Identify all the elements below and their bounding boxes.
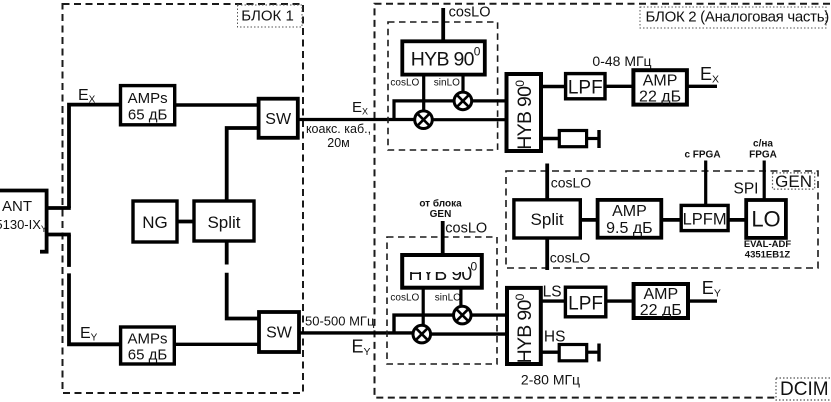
svg-text:cosLO: cosLO [390, 293, 419, 304]
wire LPF2 to AMP2 [606, 299, 634, 302]
svg-text:С5130-IXY: С5130-IXY [0, 217, 47, 234]
svg-text:LPFM: LPFM [683, 211, 727, 229]
amplifier AMPs1 65 dB [121, 86, 175, 125]
wire cosLO stub above Split2 [545, 164, 549, 200]
wire Split bottom segment 1 [225, 241, 229, 265]
wire M2 to HYB1v [472, 99, 507, 102]
svg-text:AMPs: AMPs [127, 331, 167, 348]
svg-text:20м: 20м [327, 136, 350, 150]
svg-text:Split: Split [207, 213, 240, 232]
svg-text:SW: SW [265, 111, 292, 128]
svg-text:SPI: SPI [734, 181, 759, 198]
block boundary BLOK2 (dashed) [375, 4, 831, 398]
svg-text:FPGA: FPGA [749, 150, 777, 161]
wire Split top to SW1 [227, 128, 259, 201]
wire FPGA to LPFM [704, 161, 707, 206]
block boundary GEN (dashed) [506, 171, 818, 268]
wire M1 to HYB1v [432, 118, 506, 121]
svg-text:9.5 дБ: 9.5 дБ [606, 220, 653, 237]
svg-text:4351EB1Z: 4351EB1Z [745, 250, 791, 261]
svg-text:cosLO: cosLO [449, 4, 491, 20]
block boundary mixer group Y (dashed) [387, 237, 497, 364]
svg-text:NG: NG [142, 213, 168, 232]
filter LPFM [681, 205, 728, 230]
hybrid HYB 90 (X LO) [402, 41, 485, 74]
block boundary BLOK1 (dashed) [63, 4, 304, 393]
wire junction branch up to mixer M2 [394, 101, 454, 120]
wire HYB1v to terminator (X) [541, 137, 559, 140]
wire HYB2v HS to terminator [541, 351, 559, 354]
svg-text:LO: LO [751, 207, 780, 232]
label box BLOK 1 [238, 5, 303, 27]
svg-text:SW: SW [266, 325, 293, 342]
wire M3 to HYB2v [431, 332, 507, 335]
label box GEN [773, 172, 815, 191]
label box DCIM [776, 378, 831, 400]
svg-text:БЛОК 2 (Аналоговая часть): БЛОК 2 (Аналоговая часть) [646, 9, 830, 26]
svg-text:cosLO: cosLO [445, 221, 487, 237]
amplifier AMP1 22 dB [633, 70, 687, 105]
svg-text:HYB 90: HYB 90 [411, 48, 475, 70]
wire AMP1 output Ex [687, 85, 717, 88]
svg-text:cosLO: cosLO [550, 250, 591, 266]
wire AMPs1 to SW1 [175, 103, 259, 106]
wire junction branch up to mixer M4 [394, 315, 453, 333]
wire Ey riser upper segment [67, 235, 71, 267]
svg-text:sinLO: sinLO [434, 78, 460, 89]
svg-text:Split: Split [531, 210, 564, 229]
hybrid HYB 90 vertical (X IF) [507, 74, 542, 151]
wire HYB1 to mixer M1 [422, 74, 425, 112]
resistor terminator (Y) [559, 344, 599, 362]
wire SW2 to mixer M3 [299, 331, 413, 334]
wire FPGA to LO (SPI) [763, 161, 766, 201]
hybrid HYB 90 vertical (Y IF) [507, 288, 541, 364]
wire M4 to HYB2v [471, 313, 507, 316]
wire AMP3 to LPFM [661, 218, 681, 222]
svg-text:GEN: GEN [775, 172, 812, 191]
switch SW1 [259, 99, 298, 138]
svg-text:65 дБ: 65 дБ [128, 347, 168, 364]
svg-text:HYB 900: HYB 900 [513, 293, 536, 363]
wire cosLO stub below Split2 [545, 238, 549, 270]
svg-text:2-80 МГц: 2-80 МГц [521, 372, 580, 388]
wire SW1 to mixer M1 (coax) [298, 118, 415, 121]
wire HYB2 to mixer M4 [459, 288, 462, 307]
svg-text:GEN: GEN [430, 209, 452, 220]
wire cosLO stub into HYB1 [441, 8, 445, 41]
svg-text:LPF: LPF [568, 78, 603, 99]
svg-text:AMP: AMP [643, 73, 678, 90]
svg-text:cosLO: cosLO [551, 175, 592, 191]
svg-text:HYB 900: HYB 900 [513, 80, 536, 150]
svg-text:коакс. каб.,: коакс. каб., [306, 122, 371, 136]
wire LPF1 to AMP1 [605, 85, 633, 88]
mixer M4 (sin, Y) [454, 306, 472, 324]
svg-text:65 дБ: 65 дБ [128, 107, 168, 124]
wire HYB1v to LPF1 [541, 85, 566, 88]
mixer M1 (cos, X) [415, 111, 433, 129]
svg-text:50-500 МГц: 50-500 МГц [305, 314, 375, 329]
wire Ex riser and into AMPs1 [69, 105, 121, 208]
noise generator NG [133, 201, 177, 242]
wire cosLO stub into HYB2 [441, 221, 445, 255]
oscillator LO [746, 200, 786, 238]
wire HYB2v LS to LPF2 [541, 299, 566, 302]
wire Ey riser lower segment into AMPs2 [69, 273, 121, 344]
svg-text:0-48 МГц: 0-48 МГц [592, 53, 651, 69]
svg-text:DCIM: DCIM [780, 379, 829, 400]
amplifier AMP3 9.5 dB [598, 200, 662, 238]
svg-text:0: 0 [474, 45, 481, 59]
antenna ANT box [0, 189, 49, 252]
label box BLOK 2 (Analogovaya chast) [640, 7, 829, 28]
splitter Split [194, 201, 254, 241]
svg-text:с FPGA: с FPGA [684, 150, 720, 161]
svg-text:0: 0 [471, 260, 478, 274]
filter LPF1 [566, 74, 605, 99]
svg-text:ANT: ANT [2, 198, 32, 215]
svg-text:LS: LS [543, 284, 562, 301]
svg-text:с/на: с/на [753, 139, 773, 150]
wire HYB2 to mixer M3 [422, 288, 425, 326]
wire Split2 to AMP3 [580, 218, 597, 222]
wire AMPs2 to SW2 [174, 343, 259, 346]
hybrid HYB 90 (Y LO) partially erased [402, 255, 482, 288]
mixer M3 (cos, Y) [413, 325, 431, 343]
filter LPF2 [565, 287, 605, 317]
svg-text:LPF: LPF [568, 294, 603, 315]
svg-text:cosLO: cosLO [390, 78, 419, 89]
svg-text:от блока: от блока [419, 198, 462, 210]
wire Split bottom segment 2 to SW2 [227, 273, 259, 319]
svg-text:sinLO: sinLO [435, 293, 461, 304]
amplifier AMP2 22 dB [634, 284, 688, 319]
wire HYB1 to mixer M2 [461, 74, 464, 93]
wire AMP2 output Ey [688, 299, 717, 302]
wire NG to Split [177, 220, 194, 224]
resistor terminator (X) [559, 130, 599, 148]
mixer M2 (sin, X) [454, 92, 472, 110]
svg-text:БЛОК 1: БЛОК 1 [241, 7, 294, 24]
block boundary mixer group X (dashed) [388, 22, 498, 150]
svg-text:AMP: AMP [612, 203, 647, 220]
svg-text:22 дБ: 22 дБ [639, 89, 681, 106]
svg-text:EVAL-ADF: EVAL-ADF [744, 239, 792, 250]
wire LPFM to LO [728, 218, 746, 222]
splitter Split2 [514, 200, 580, 238]
svg-text:22 дБ: 22 дБ [640, 302, 682, 319]
svg-text:AMP: AMP [643, 286, 678, 303]
svg-text:AMPs: AMPs [128, 90, 168, 107]
wire ANT port1 to Ex riser [48, 206, 71, 210]
switch SW2 [259, 312, 299, 352]
wire ANT port2 to Ey riser [48, 233, 71, 237]
amplifier AMPs2 65 dB [121, 327, 175, 364]
